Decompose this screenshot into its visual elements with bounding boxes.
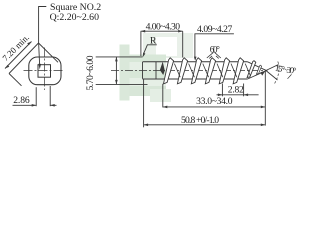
svg-text:4.00~4.30: 4.00~4.30 bbox=[146, 22, 181, 33]
thread crest 7 on taper bbox=[247, 61, 256, 78]
screw tip taper bottom bbox=[248, 71, 266, 79]
dimension 2.86 line with arrows bbox=[13, 104, 57, 106]
leader to square recess bbox=[39, 7, 47, 67]
thread root line 5 bbox=[231, 64, 237, 78]
front view horizontal centerline bbox=[24, 69, 65, 71]
square recess bbox=[38, 65, 51, 78]
svg-text:33.0~34.0: 33.0~34.0 bbox=[196, 96, 233, 107]
dimension 4.00~4.30 line bbox=[141, 30, 183, 32]
tip angle flank extension upper bbox=[266, 65, 279, 71]
thread crest 8 small on taper bbox=[257, 65, 262, 74]
dimension 50.8 extension left bbox=[143, 80, 145, 128]
svg-text:2.86: 2.86 bbox=[13, 95, 30, 106]
tip angle arc dashed bbox=[274, 62, 279, 85]
60 degree flank lines bbox=[207, 52, 221, 58]
thread root line 4 bbox=[217, 64, 223, 78]
screw head right face bbox=[155, 62, 157, 79]
screw shank top line bbox=[143, 61, 248, 63]
thread crest 3 bbox=[191, 58, 201, 84]
diamond edge top-left bbox=[9, 43, 39, 74]
tip arrow mark bbox=[260, 71, 265, 76]
fillet dark mark at head-thread junction bbox=[160, 62, 165, 75]
dimension 5.70~6.00 vertical line bbox=[115, 57, 117, 85]
extension right from tip bbox=[264, 72, 266, 126]
svg-text:7.20 min.: 7.20 min. bbox=[0, 32, 31, 63]
thread crest 2 bbox=[177, 58, 187, 84]
svg-text:5.70~6.00: 5.70~6.00 bbox=[85, 55, 96, 90]
svg-text:Q:2.20~2.60: Q:2.20~2.60 bbox=[50, 12, 99, 23]
thread root line 3 bbox=[203, 64, 209, 78]
thread root line 2 bbox=[189, 64, 195, 78]
thread root line 1 bbox=[174, 64, 180, 78]
dimension 2.82 line with arrows bbox=[217, 94, 259, 96]
thread crest 1 bbox=[164, 58, 174, 84]
thread crest 5 bbox=[219, 58, 229, 84]
diamond edge top-right bbox=[39, 43, 59, 62]
dimension 33.0~34.0 extension left bbox=[162, 84, 164, 108]
screw tip taper top bbox=[248, 62, 266, 71]
tip angle flank extension lower bbox=[266, 71, 278, 81]
screw axis centerline bbox=[111, 70, 268, 72]
thread crest 6 bbox=[233, 58, 244, 84]
dimension line 7.20 min bbox=[5, 42, 32, 69]
svg-text:2.82: 2.82 bbox=[228, 85, 244, 96]
diamond edge bottom-left bbox=[9, 74, 22, 86]
thread root line 6 bbox=[245, 64, 250, 77]
extension line left 4.00 bbox=[140, 31, 142, 56]
dimension 2.86 extension lines bbox=[35, 87, 37, 106]
watermark band block bbox=[130, 55, 167, 97]
watermark vertical bar bbox=[120, 45, 130, 101]
screw head side view left face bbox=[142, 62, 144, 79]
screw shank bottom line bbox=[143, 78, 248, 80]
head front view rounded square bbox=[29, 57, 61, 85]
watermark lower-right light block bbox=[150, 89, 171, 102]
watermark logo top-right pale square bbox=[120, 33, 194, 102]
dimension 50.8 line bbox=[144, 124, 266, 126]
dimension 2.82 extension lines bbox=[221, 84, 223, 97]
thread crest 4 bbox=[205, 58, 215, 84]
extension line right 4.30 bbox=[182, 31, 184, 57]
dimension 5.70~6.00 extension lines bbox=[96, 56, 143, 58]
svg-text:50.8 +0/-1.0: 50.8 +0/-1.0 bbox=[181, 115, 219, 126]
svg-text:15°~30°: 15°~30° bbox=[274, 63, 297, 76]
dimension 33.0~34.0 line bbox=[163, 106, 265, 108]
front view vertical centerline bbox=[44, 48, 46, 91]
small tick under tip label bbox=[288, 74, 292, 78]
